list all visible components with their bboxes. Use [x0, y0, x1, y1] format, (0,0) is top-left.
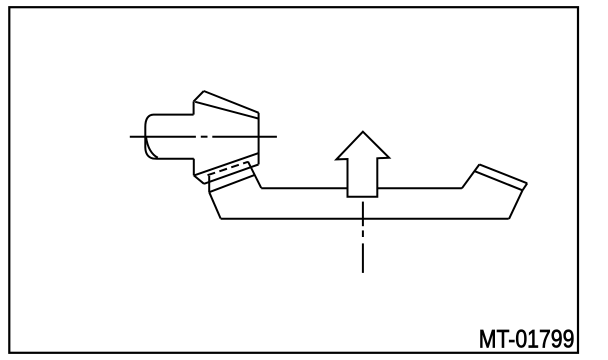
- cone top step (vertical): [193, 101, 195, 114]
- right end riser diagonal: [462, 164, 480, 188]
- vertical centerline (dash-dot) below arrow: [362, 202, 364, 273]
- clamp band top edge: [194, 153, 258, 175]
- fork bar top edge (left of arrow): [261, 187, 347, 189]
- shaft cylinder with rounded left end: [145, 115, 194, 159]
- fork arm lower-left diagonal: [209, 192, 220, 218]
- right end pad right cap: [523, 183, 528, 190]
- fork arm left vertical edge: [208, 176, 210, 192]
- horizontal centerline (dash-dot) through shaft: [130, 136, 277, 138]
- right end pad top edge: [479, 164, 527, 183]
- cone top-left chamfer: [194, 91, 204, 101]
- fork arm right steep edge: [248, 162, 261, 188]
- cone bottom outer edge: [204, 165, 259, 184]
- cone outer top edge: [204, 91, 259, 113]
- fork bar bottom edge: [221, 218, 509, 220]
- shaft end-face ellipse arc: [146, 137, 158, 158]
- fork bar top edge (right of arrow): [377, 187, 462, 189]
- cone right edge (big end): [258, 113, 260, 165]
- hidden edge (dashed) along cone bottom: [208, 162, 249, 175]
- cone bottom-left chamfer: [194, 175, 204, 183]
- cone bottom step (vertical): [193, 159, 195, 176]
- right end pad bottom edge: [475, 171, 523, 190]
- fork arm top edge: [209, 175, 255, 192]
- cone inner top edge: [195, 102, 258, 119]
- right end lower diagonal: [509, 190, 523, 219]
- upward arrow (white filled): [336, 132, 389, 197]
- svg-text:MT-01799: MT-01799: [479, 325, 575, 353]
